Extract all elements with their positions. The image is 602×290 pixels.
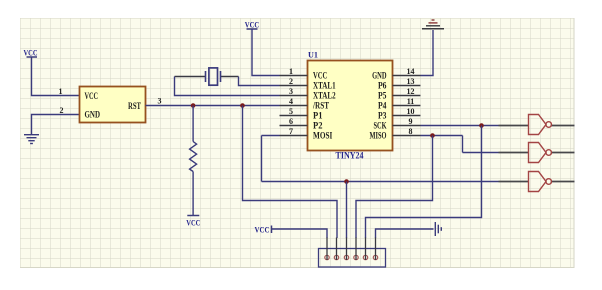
- svg-text:P5: P5: [378, 91, 387, 101]
- wire crystal right to U1 XTAL1: [239, 77, 280, 86]
- node junction MISO branch: [430, 133, 435, 138]
- svg-text:XTAL1: XTAL1: [313, 81, 336, 91]
- U1 left pin numbers: [289, 67, 293, 136]
- svg-text:4: 4: [289, 97, 293, 106]
- svg-text:10: 10: [407, 107, 415, 116]
- wire crystal left to U1 XTAL2: [175, 77, 280, 96]
- U1 right pin numbers: [407, 67, 415, 136]
- svg-text:P4: P4: [378, 101, 387, 111]
- svg-text:3: 3: [289, 87, 293, 96]
- svg-text:7: 7: [289, 127, 293, 136]
- wire MISO branch to connector pin 4: [356, 136, 433, 239]
- svg-text:11: 11: [407, 97, 415, 106]
- svg-text:P2: P2: [313, 121, 323, 131]
- svg-text:6: 6: [289, 117, 293, 126]
- ground symbol top-right (inverted): [422, 20, 444, 29]
- connector pin 1: [325, 238, 329, 260]
- svg-text:RST: RST: [128, 101, 141, 111]
- U1 right pin stubs: [393, 76, 421, 136]
- connector pin 5: [363, 238, 367, 260]
- svg-text:MISO: MISO: [370, 131, 387, 141]
- node junction SCK branch: [479, 123, 484, 128]
- wire /RST branch down to connector pin 2: [243, 106, 338, 239]
- inverter gate U3C: [499, 172, 575, 192]
- svg-text:XTAL2: XTAL2: [313, 91, 336, 101]
- wire ground to RST block pin 2: [32, 115, 80, 135]
- resistor R1: [190, 106, 197, 216]
- connector pin 2: [334, 238, 338, 260]
- svg-text:SCK: SCK: [374, 121, 387, 131]
- connector pin 4: [354, 238, 358, 260]
- ground symbol left: [24, 135, 39, 144]
- svg-text:U1: U1: [308, 50, 318, 60]
- svg-text:8: 8: [409, 127, 413, 136]
- connector pin 6: [373, 238, 377, 260]
- wire VCC to U1 pin 1: [252, 29, 280, 76]
- svg-text:1: 1: [289, 67, 293, 76]
- svg-text:5: 5: [289, 107, 293, 116]
- wire SCK net to gate 1: [421, 125, 499, 127]
- wire GND pin 14 up to ground: [421, 30, 434, 76]
- connector pin 3: [344, 238, 348, 260]
- svg-text:VCC: VCC: [313, 71, 327, 81]
- svg-text:VCC: VCC: [245, 20, 260, 30]
- svg-text:P3: P3: [378, 111, 387, 121]
- power port VCC top-left: [24, 48, 38, 58]
- ground symbol sideways (right-pointing earth): [435, 222, 441, 236]
- wire MISO net: [421, 136, 499, 153]
- svg-text:2: 2: [289, 77, 293, 86]
- svg-text:GND: GND: [372, 71, 387, 81]
- wire MOSI net to gate 3: [262, 136, 499, 182]
- svg-text:MOSI: MOSI: [313, 131, 333, 141]
- crystal Y1: [175, 68, 239, 85]
- node junction MOSI to connector: [344, 179, 349, 184]
- svg-text:VCC: VCC: [186, 218, 200, 228]
- svg-text:14: 14: [407, 67, 415, 76]
- svg-text:3: 3: [158, 97, 162, 106]
- wire VCC to connector pin 1: [272, 229, 328, 238]
- inverter gate U3A: [499, 115, 575, 135]
- svg-text:/RST: /RST: [312, 101, 329, 111]
- node junction at connector branch: [240, 103, 245, 108]
- wire SCK branch to connector pin 5: [366, 126, 482, 239]
- svg-text:VCC: VCC: [255, 225, 270, 235]
- svg-text:VCC: VCC: [24, 48, 38, 58]
- node junction at resistor: [191, 103, 196, 108]
- inverter gate U3B: [499, 143, 575, 163]
- svg-text:P6: P6: [378, 81, 387, 91]
- connector J1: [319, 249, 386, 268]
- svg-text:P1: P1: [313, 111, 323, 121]
- power port VCC bottom-left of connector: [255, 225, 272, 235]
- IC U1: [308, 61, 393, 151]
- svg-text:TINY24: TINY24: [336, 151, 364, 161]
- wire RST output to U1 pin 4 (/RST net): [146, 105, 280, 107]
- RST block U2: [80, 87, 146, 123]
- power port VCC below resistor: [186, 216, 200, 228]
- svg-text:13: 13: [407, 77, 415, 86]
- svg-text:2: 2: [60, 106, 64, 115]
- wire MOSI branch down to connector pin 3: [346, 182, 348, 239]
- svg-text:12: 12: [407, 87, 415, 96]
- svg-text:1: 1: [59, 87, 63, 96]
- wire VCC to RST block pin 1: [32, 58, 80, 96]
- svg-text:VCC: VCC: [85, 91, 99, 101]
- power port VCC top-center: [245, 20, 260, 30]
- svg-text:GND: GND: [85, 110, 101, 120]
- U1 left pin stubs: [280, 76, 308, 136]
- svg-text:9: 9: [409, 117, 413, 126]
- wire connector pin 6 to earth: [376, 229, 434, 238]
